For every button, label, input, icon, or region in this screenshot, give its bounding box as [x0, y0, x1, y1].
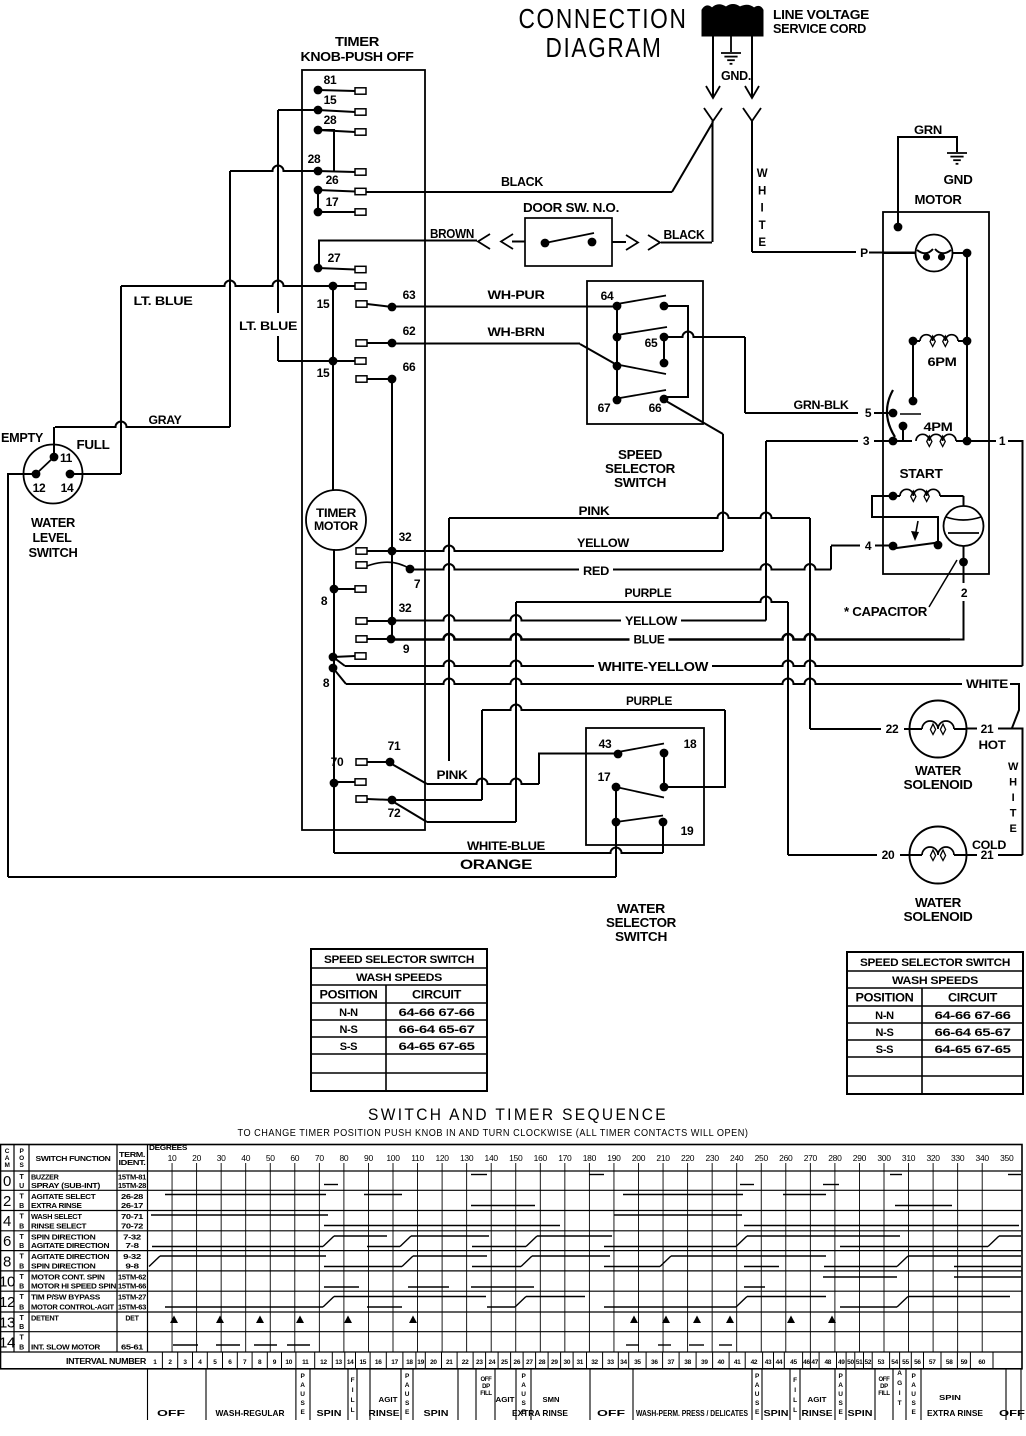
svg-text:25: 25 — [501, 1359, 508, 1366]
svg-text:TERM.: TERM. — [119, 1152, 145, 1159]
svg-text:SWITCH: SWITCH — [615, 930, 667, 944]
svg-text:330: 330 — [951, 1153, 965, 1163]
label WHITE vertical right — [1008, 761, 1019, 835]
wire service cord right lead with arrowhead — [745, 36, 759, 98]
wire node 14 to lt blue riser — [70, 473, 121, 475]
svg-text:DP: DP — [482, 1384, 490, 1390]
svg-text:33: 33 — [607, 1359, 614, 1366]
svg-text:9-8: 9-8 — [125, 1263, 139, 1270]
node 4 — [889, 542, 898, 551]
label GRN — [914, 123, 942, 137]
svg-text:SPEED SELECTOR SWITCH: SPEED SELECTOR SWITCH — [860, 957, 1010, 969]
svg-text:300: 300 — [877, 1153, 891, 1163]
svg-text:B: B — [19, 1203, 24, 1210]
svg-text:67: 67 — [598, 401, 611, 415]
label LINE VOLTAGE — [773, 7, 870, 22]
svg-text:15TM-63: 15TM-63 — [118, 1305, 146, 1312]
svg-text:27: 27 — [328, 251, 341, 265]
wire 28 to gray corner — [230, 166, 318, 172]
hot water solenoid — [910, 701, 967, 758]
blade 67 — [617, 390, 666, 399]
label terminal 4 — [865, 539, 872, 553]
terminal 32b — [356, 601, 412, 625]
blade 43 — [618, 744, 664, 753]
label WHITE-YELLOW — [594, 659, 712, 674]
svg-text:8: 8 — [323, 676, 330, 690]
svg-text:YELLOW: YELLOW — [625, 614, 678, 628]
svg-text:FULL: FULL — [77, 438, 111, 452]
svg-text:46: 46 — [803, 1359, 810, 1366]
label LT. BLUE first — [134, 294, 193, 308]
svg-text:PURPLE: PURPLE — [626, 694, 672, 708]
svg-text:DET: DET — [125, 1316, 139, 1323]
svg-text:230: 230 — [706, 1153, 720, 1163]
svg-text:N-S: N-S — [875, 1027, 893, 1039]
label 6PM — [928, 355, 957, 369]
label terminal 2 — [961, 586, 968, 600]
svg-text:66-64 65-67: 66-64 65-67 — [935, 1027, 1011, 1039]
terminal 32a — [356, 530, 412, 555]
connector chevrons left — [478, 234, 513, 249]
svg-text:BLUE: BLUE — [634, 633, 665, 647]
wire connector to black lead — [661, 242, 712, 244]
svg-text:65-61: 65-61 — [121, 1345, 144, 1352]
wire 28 jumper — [318, 130, 334, 171]
svg-text:L: L — [351, 1407, 355, 1414]
timing chart marks — [149, 1175, 1021, 1346]
svg-text:20: 20 — [192, 1153, 201, 1163]
svg-text:WHITE: WHITE — [966, 677, 1008, 691]
timer box — [302, 70, 425, 830]
svg-text:I: I — [1012, 792, 1015, 804]
svg-text:LINE VOLTAGE: LINE VOLTAGE — [773, 7, 870, 22]
svg-text:180: 180 — [583, 1153, 597, 1163]
label water solenoid hot — [904, 764, 973, 792]
svg-text:66-64 65-67: 66-64 65-67 — [399, 1024, 475, 1036]
node F3 — [660, 337, 669, 367]
svg-text:27: 27 — [526, 1359, 533, 1366]
water level switch circle — [24, 445, 83, 504]
wire service cord left lead with arrowhead — [706, 36, 720, 98]
svg-text:12: 12 — [33, 481, 46, 495]
svg-text:N-S: N-S — [339, 1024, 357, 1036]
svg-text:110: 110 — [411, 1153, 424, 1163]
wire RED — [410, 546, 831, 570]
title CONNECTION DIAGRAM line 2 — [546, 32, 663, 63]
svg-text:GRAY: GRAY — [149, 413, 182, 427]
svg-text:MOTOR CONT. SPIN: MOTOR CONT. SPIN — [31, 1272, 105, 1281]
svg-text:SWITCH: SWITCH — [29, 546, 78, 560]
svg-text:72: 72 — [388, 806, 401, 820]
terminal 7 — [356, 562, 421, 591]
svg-text:14: 14 — [0, 1334, 15, 1351]
wire 2 to blue row — [950, 601, 964, 640]
wire lt blue 1 horizontal — [121, 281, 333, 287]
blade E — [617, 365, 666, 375]
svg-text:70-71: 70-71 — [121, 1214, 144, 1221]
label PURPLE upper — [625, 586, 672, 600]
svg-text:DOOR SW. N.O.: DOOR SW. N.O. — [523, 201, 619, 215]
svg-text:29: 29 — [551, 1359, 558, 1366]
wire GRAY horizontal — [55, 422, 230, 427]
svg-text:28: 28 — [308, 152, 321, 166]
svg-text:49: 49 — [838, 1359, 845, 1366]
label 22 — [886, 722, 899, 736]
terminal 66 — [356, 360, 416, 383]
terminal 72 — [356, 796, 401, 820]
svg-text:W: W — [1008, 761, 1019, 773]
node 11 — [50, 451, 73, 465]
svg-text:GRN: GRN — [914, 123, 942, 137]
wire start bypass — [872, 496, 938, 543]
ground motor GND — [947, 153, 967, 164]
svg-text:BROWN: BROWN — [430, 227, 474, 241]
svg-text:MOTOR: MOTOR — [915, 193, 962, 207]
wire purple riser to 72 — [515, 602, 517, 822]
svg-text:S-S: S-S — [340, 1041, 357, 1053]
svg-text:52: 52 — [865, 1359, 872, 1366]
svg-text:INT. SLOW MOTOR: INT. SLOW MOTOR — [31, 1343, 101, 1352]
svg-text:4: 4 — [3, 1213, 11, 1230]
label GND motor — [944, 173, 973, 187]
label TIMER — [335, 35, 379, 49]
wire 65 out — [664, 332, 745, 414]
svg-text:WASH-PERM. PRESS / DELICATES: WASH-PERM. PRESS / DELICATES — [636, 1409, 749, 1418]
terminal 62 — [356, 324, 416, 347]
svg-text:IDENT.: IDENT. — [119, 1160, 146, 1167]
svg-text:64: 64 — [601, 289, 614, 303]
svg-text:POSITION: POSITION — [856, 993, 914, 1005]
svg-text:EXTRA RINSE: EXTRA RINSE — [927, 1408, 983, 1418]
svg-text:CIRCUIT: CIRCUIT — [412, 990, 461, 1002]
svg-text:17: 17 — [326, 195, 339, 209]
svg-text:DEGREES: DEGREES — [149, 1143, 187, 1152]
blade C — [617, 327, 667, 335]
label EMPTY — [1, 431, 44, 445]
terminal 28 second — [308, 152, 366, 175]
svg-text:26-28: 26-28 — [121, 1194, 144, 1201]
svg-text:P: P — [860, 246, 868, 260]
svg-text:FILL: FILL — [480, 1391, 492, 1397]
wire B loop — [664, 306, 688, 397]
svg-text:15: 15 — [359, 1359, 366, 1366]
svg-text:15: 15 — [317, 297, 330, 311]
svg-text:AGIT: AGIT — [496, 1395, 515, 1404]
label BROWN — [430, 227, 474, 241]
svg-text:SELECTOR: SELECTOR — [605, 462, 675, 476]
svg-text:DETENT: DETENT — [31, 1314, 59, 1323]
svg-text:AGITATE DIRECTION: AGITATE DIRECTION — [31, 1241, 109, 1250]
svg-text:8: 8 — [321, 594, 328, 608]
svg-text:70-72: 70-72 — [121, 1223, 144, 1230]
wire cold 21 lead — [966, 854, 1023, 856]
label BLUE — [630, 632, 669, 647]
label BLACK top — [501, 175, 543, 189]
wire diagonal black lead to BLACK wire — [672, 122, 713, 192]
svg-text:RINSE: RINSE — [802, 1408, 833, 1418]
svg-text:38: 38 — [684, 1359, 691, 1366]
label 20 — [882, 848, 895, 862]
label water solenoid cold — [904, 896, 973, 924]
subtitle timer note — [238, 1127, 749, 1139]
svg-text:U: U — [911, 1391, 916, 1398]
node 43 — [599, 737, 623, 758]
wire YELLOW lower — [392, 441, 766, 621]
svg-text:L: L — [793, 1407, 797, 1414]
svg-text:6: 6 — [3, 1233, 11, 1250]
svg-text:100: 100 — [386, 1153, 400, 1163]
wire 17 down — [612, 787, 621, 826]
coil START — [889, 489, 964, 506]
speed selector wash speeds table left — [311, 949, 487, 1091]
svg-text:I: I — [761, 203, 764, 215]
label 4PM — [924, 420, 953, 434]
svg-text:BLACK: BLACK — [501, 175, 543, 189]
svg-text:55: 55 — [902, 1359, 909, 1366]
speed selector box — [587, 281, 703, 424]
svg-text:OFF: OFF — [480, 1377, 492, 1383]
svg-text:SPEED SELECTOR SWITCH: SPEED SELECTOR SWITCH — [324, 954, 474, 966]
svg-text:LT. BLUE: LT. BLUE — [134, 294, 193, 308]
node grn dot — [894, 223, 903, 232]
svg-text:H: H — [1009, 777, 1017, 789]
svg-text:SPIN: SPIN — [939, 1393, 961, 1402]
label PINK lower — [437, 768, 469, 782]
terminal 15a — [317, 282, 366, 311]
svg-text:MOTOR CONTROL-AGIT: MOTOR CONTROL-AGIT — [31, 1303, 115, 1312]
svg-text:SPEED: SPEED — [618, 448, 662, 462]
svg-text:64-65 67-65: 64-65 67-65 — [399, 1041, 475, 1053]
svg-text:260: 260 — [779, 1153, 793, 1163]
svg-text:22: 22 — [886, 722, 899, 736]
svg-text:N-N: N-N — [339, 1007, 358, 1019]
node 17 — [598, 770, 621, 791]
wire 72 diagonal — [392, 801, 516, 822]
speed selector left rail — [616, 306, 618, 400]
svg-text:22: 22 — [462, 1359, 469, 1366]
svg-text:U: U — [521, 1391, 526, 1398]
svg-text:CONNECTION: CONNECTION — [519, 3, 688, 34]
wire gray to node 11 — [53, 427, 55, 457]
svg-text:26-17: 26-17 — [121, 1203, 144, 1210]
svg-text:EMPTY: EMPTY — [1, 431, 44, 445]
svg-text:16: 16 — [375, 1359, 382, 1366]
wire right edge white run — [1012, 729, 1023, 856]
svg-text:AGITATE SELECT: AGITATE SELECT — [31, 1192, 96, 1201]
svg-text:U: U — [755, 1391, 760, 1398]
title CONNECTION DIAGRAM line 1 — [519, 3, 688, 34]
svg-text:E: E — [758, 237, 766, 249]
node 66 switch — [649, 395, 669, 415]
speed selector wash speeds table right — [847, 952, 1023, 1094]
node 67 — [598, 396, 622, 415]
svg-text:160: 160 — [534, 1153, 548, 1163]
wire YELLOW upper — [392, 546, 723, 552]
svg-text:170: 170 — [558, 1153, 572, 1163]
svg-text:U: U — [405, 1391, 410, 1398]
svg-text:A: A — [838, 1382, 843, 1389]
svg-text:66: 66 — [649, 401, 662, 415]
label WH-PUR — [488, 288, 546, 302]
switch arrow — [911, 521, 919, 541]
node 14 — [61, 470, 75, 495]
svg-text:4: 4 — [865, 539, 872, 553]
svg-text:B: B — [19, 1243, 24, 1250]
svg-text:7-8: 7-8 — [125, 1243, 139, 1250]
svg-text:34: 34 — [620, 1359, 627, 1366]
label RED — [579, 564, 613, 579]
svg-text:0: 0 — [3, 1173, 11, 1190]
svg-text:200: 200 — [632, 1153, 646, 1163]
svg-text:28: 28 — [324, 113, 337, 127]
svg-text:66: 66 — [403, 360, 416, 374]
wire timer common rail upper — [332, 286, 334, 491]
svg-text:U: U — [838, 1391, 843, 1398]
motor centrifugal switch arc — [887, 390, 921, 437]
node E — [613, 362, 622, 371]
svg-text:10: 10 — [0, 1274, 15, 1291]
svg-text:SELECTOR: SELECTOR — [606, 916, 676, 930]
wire terminal rail 66-32-32-9 — [391, 379, 393, 639]
svg-text:42: 42 — [751, 1359, 758, 1366]
svg-text:2: 2 — [961, 586, 968, 600]
label PURPLE lower — [626, 694, 672, 708]
svg-text:47: 47 — [811, 1359, 818, 1366]
svg-text:15TM-66: 15TM-66 — [118, 1284, 146, 1291]
door switch box — [525, 218, 612, 266]
svg-text:81: 81 — [324, 73, 337, 87]
wire 26-17 jumper — [317, 190, 319, 212]
capacitor circle — [944, 506, 984, 546]
svg-text:40: 40 — [718, 1359, 725, 1366]
terminal 63 — [356, 288, 416, 311]
svg-text:18: 18 — [406, 1359, 413, 1366]
wire connector to door box — [512, 241, 525, 243]
svg-text:A: A — [897, 1370, 902, 1377]
svg-text:DP: DP — [880, 1384, 888, 1390]
svg-text:53: 53 — [878, 1359, 885, 1366]
label GRAY — [149, 413, 182, 427]
svg-text:A: A — [300, 1382, 305, 1389]
svg-text:M: M — [4, 1162, 9, 1169]
line voltage service cord plug body — [702, 5, 763, 37]
svg-text:54: 54 — [891, 1359, 898, 1366]
wire WHITE-BLUE — [334, 822, 663, 853]
svg-text:290: 290 — [853, 1153, 867, 1163]
svg-text:C: C — [5, 1148, 10, 1155]
connector chevrons right — [626, 235, 660, 250]
label terminal 5 — [865, 406, 872, 420]
svg-text:T: T — [1010, 808, 1017, 820]
motor box — [883, 212, 989, 574]
svg-text:B: B — [19, 1284, 24, 1291]
wire GRN — [898, 137, 957, 227]
svg-text:B: B — [19, 1223, 24, 1230]
svg-text:RINSE SELECT: RINSE SELECT — [31, 1221, 87, 1230]
svg-text:12: 12 — [320, 1359, 327, 1366]
svg-text:N-N: N-N — [875, 1010, 894, 1022]
svg-text:340: 340 — [976, 1153, 990, 1163]
wire WH-BRN 62 to switch — [392, 344, 617, 366]
water selector box — [586, 728, 704, 845]
svg-text:F: F — [793, 1377, 797, 1384]
program strip — [148, 1369, 1026, 1420]
svg-text:L: L — [793, 1397, 797, 1404]
node 5 — [889, 409, 898, 418]
svg-text:LT. BLUE: LT. BLUE — [239, 319, 297, 333]
svg-text:2: 2 — [3, 1193, 11, 1210]
label SPEED SELECTOR SWITCH — [605, 448, 675, 490]
svg-text:WATER: WATER — [617, 902, 665, 916]
svg-text:EXTRA RINSE: EXTRA RINSE — [512, 1408, 568, 1418]
svg-text:A: A — [755, 1382, 760, 1389]
svg-text:70: 70 — [331, 755, 344, 769]
svg-text:280: 280 — [828, 1153, 842, 1163]
wire white jog to hot 21 — [1010, 684, 1019, 728]
svg-text:15TM-62: 15TM-62 — [118, 1274, 146, 1281]
svg-text:48: 48 — [824, 1359, 831, 1366]
wire 3 to 4PM coil — [893, 426, 912, 441]
timing table grid — [1, 1145, 1023, 1369]
terminal 15 top — [314, 93, 366, 115]
svg-text:320: 320 — [926, 1153, 940, 1163]
wire door box to right connector — [612, 241, 626, 243]
wire PINK lower — [390, 754, 618, 785]
svg-text:7-32: 7-32 — [123, 1234, 141, 1241]
terminal 8b — [323, 653, 366, 690]
svg-text:WATER: WATER — [915, 764, 961, 778]
svg-text:H: H — [758, 185, 766, 197]
svg-text:3: 3 — [863, 434, 870, 448]
svg-text:U: U — [19, 1183, 24, 1190]
svg-text:SERVICE CORD: SERVICE CORD — [773, 21, 866, 36]
svg-text:65: 65 — [645, 336, 658, 350]
svg-text:57: 57 — [929, 1359, 936, 1366]
node 4PM contact — [899, 422, 908, 431]
svg-text:35: 35 — [634, 1359, 641, 1366]
svg-text:9-32: 9-32 — [123, 1254, 141, 1261]
label SERVICE CORD — [773, 21, 866, 36]
ground GND. below service cord — [721, 36, 741, 64]
label CAPACITOR — [844, 605, 927, 619]
wire black lead down to door switch — [712, 121, 714, 242]
svg-text:START: START — [900, 467, 944, 481]
coil 6PM — [909, 335, 972, 347]
wire node 12 to orange run — [8, 474, 36, 877]
svg-text:HOT: HOT — [979, 738, 1007, 752]
svg-text:SMN: SMN — [543, 1395, 560, 1404]
wire hot 21 lead — [966, 728, 1012, 730]
terminal 81 — [314, 73, 366, 94]
label WHITE right — [962, 677, 1012, 692]
label cold 21 — [981, 848, 994, 862]
svg-text:90: 90 — [364, 1153, 373, 1163]
svg-text:250: 250 — [755, 1153, 769, 1163]
label WHITE vertical — [757, 168, 768, 249]
wire timer common rail lower — [333, 549, 335, 853]
svg-text:40: 40 — [241, 1153, 250, 1163]
svg-text:SWITCH AND TIMER SEQUENCE: SWITCH AND TIMER SEQUENCE — [368, 1106, 668, 1124]
motor overload circle — [916, 235, 953, 272]
svg-text:A: A — [911, 1382, 916, 1389]
label hot 21 — [981, 722, 994, 736]
svg-text:OFF: OFF — [597, 1408, 625, 1418]
svg-text:OFF: OFF — [999, 1408, 1025, 1418]
wire coil to 1 — [967, 440, 996, 442]
wire right rail to 6PM — [966, 253, 968, 441]
svg-text:20: 20 — [430, 1359, 437, 1366]
svg-text:WASH SPEEDS: WASH SPEEDS — [356, 972, 442, 984]
